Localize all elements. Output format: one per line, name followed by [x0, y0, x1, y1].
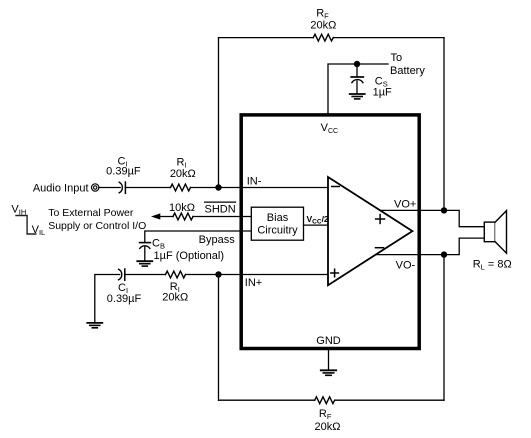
ground (GND pin) [321, 370, 336, 375]
node: IN- junction [215, 184, 221, 190]
op-amp inverting input sign [332, 186, 340, 188]
capacitor CS lead [356, 64, 358, 76]
svg-text:10kΩ: 10kΩ [169, 202, 195, 214]
wire: arrow to 10k resistor [159, 216, 174, 218]
capacitor CB lower lead [144, 247, 146, 261]
wire: ground leg to CI (bottom) [95, 275, 120, 323]
svg-text:Audio Input: Audio Input [33, 182, 89, 194]
resistor RF (top) [313, 34, 333, 41]
speaker driver RL [484, 211, 506, 254]
svg-text:To: To [391, 52, 403, 64]
capacitor CS plates [351, 77, 363, 83]
label To External Power Supply or Control I/O [48, 207, 146, 232]
resistor RF (bottom) [315, 397, 335, 404]
signal step symbol VIH/VIL [16, 216, 36, 235]
capacitor CI (bottom) plates [119, 269, 125, 280]
svg-text:Bias: Bias [267, 212, 289, 224]
label SHDN with overline [205, 202, 236, 216]
wire: Vcc/2 from bias circuitry to op-amp [304, 224, 331, 226]
wire: right vertical from RF top to VO+ node [443, 38, 445, 211]
IC boundary box [241, 115, 419, 349]
capacitor CB plates [140, 243, 151, 249]
svg-text:20kΩ: 20kΩ [310, 19, 336, 31]
svg-text:VO-: VO- [396, 259, 416, 271]
arrow: SHDN to external control [151, 213, 160, 219]
node: VO- junction [441, 251, 447, 257]
svg-text:IN-: IN- [247, 176, 262, 188]
capacitor CS lower lead [356, 81, 358, 94]
wire: 10k resistor to bias circuitry (SHDN pin) [193, 216, 251, 218]
op-amp U1 [328, 177, 412, 285]
svg-text:To External Power: To External Power [48, 207, 134, 219]
node: IN+ junction [215, 271, 221, 277]
svg-text:20kΩ: 20kΩ [315, 421, 341, 433]
svg-text:RL = 8Ω: RL = 8Ω [473, 258, 512, 271]
ground (below CI bottom) [87, 323, 102, 328]
ground (below CB) [137, 261, 152, 266]
node: VO+ junction [441, 207, 447, 213]
wire: Bypass pin from bias circuitry to CB [145, 231, 252, 242]
ground (below CS) [350, 94, 365, 99]
label To Battery [390, 52, 425, 77]
wire: GND pin [328, 350, 330, 370]
svg-text:SHDN: SHDN [205, 204, 236, 216]
svg-text:1µF: 1µF [373, 86, 392, 98]
wire: audio input to CI [99, 187, 120, 189]
svg-text:0.39µF: 0.39µF [107, 293, 142, 305]
op-amp negative output sign [376, 247, 384, 249]
wire: RI to IN+ pin into op-amp [186, 274, 329, 276]
node: battery rail junction [354, 61, 360, 67]
wire: RI to IN- pin into op-amp [191, 187, 329, 189]
svg-text:0.39µF: 0.39µF [106, 165, 141, 177]
wire: VO+ output [379, 210, 484, 226]
svg-text:1µF (Optional): 1µF (Optional) [154, 250, 225, 262]
svg-text:Circuitry: Circuitry [257, 224, 298, 236]
resistor RI (top) [171, 184, 191, 191]
capacitor CI (top, input coupling) [119, 182, 125, 193]
wire: CI to RI (bottom) [125, 274, 166, 276]
wire: bottom feedback left vertical [218, 275, 220, 401]
svg-text:Battery: Battery [390, 65, 425, 77]
svg-text:Bypass: Bypass [199, 234, 236, 246]
svg-text:20kΩ: 20kΩ [162, 292, 188, 304]
svg-text:IN+: IN+ [245, 277, 262, 289]
wire: top feedback horizontal left of RF [219, 37, 314, 39]
resistor 10k (SHDN) [173, 213, 193, 220]
op-amp positive output sign [376, 215, 385, 224]
wire: bottom feedback horizontal left of RF [219, 399, 315, 401]
wire: VO- output [375, 238, 485, 255]
svg-text:20kΩ: 20kΩ [170, 168, 196, 180]
label Bias Circuitry [257, 212, 298, 236]
svg-text:GND: GND [316, 335, 341, 347]
op-amp non-inverting input sign [331, 269, 339, 277]
wire: right vertical from VO- node to bottom RF [443, 255, 445, 401]
wire: CI to RI (top) [125, 187, 170, 189]
wire: top feedback horizontal right of RF [333, 37, 444, 39]
resistor RI (bottom) [166, 271, 186, 278]
svg-text:Supply or Control I/O: Supply or Control I/O [48, 220, 146, 232]
wire: Vcc pin vertical to battery rail [328, 64, 388, 114]
audio input connector [92, 184, 99, 191]
wire: bottom feedback horizontal right of RF [335, 399, 444, 401]
bias circuitry box U1a [251, 207, 303, 240]
svg-text:VO+: VO+ [394, 198, 416, 210]
wire: top feedback loop left vertical (RF to IN- node) [218, 38, 220, 188]
